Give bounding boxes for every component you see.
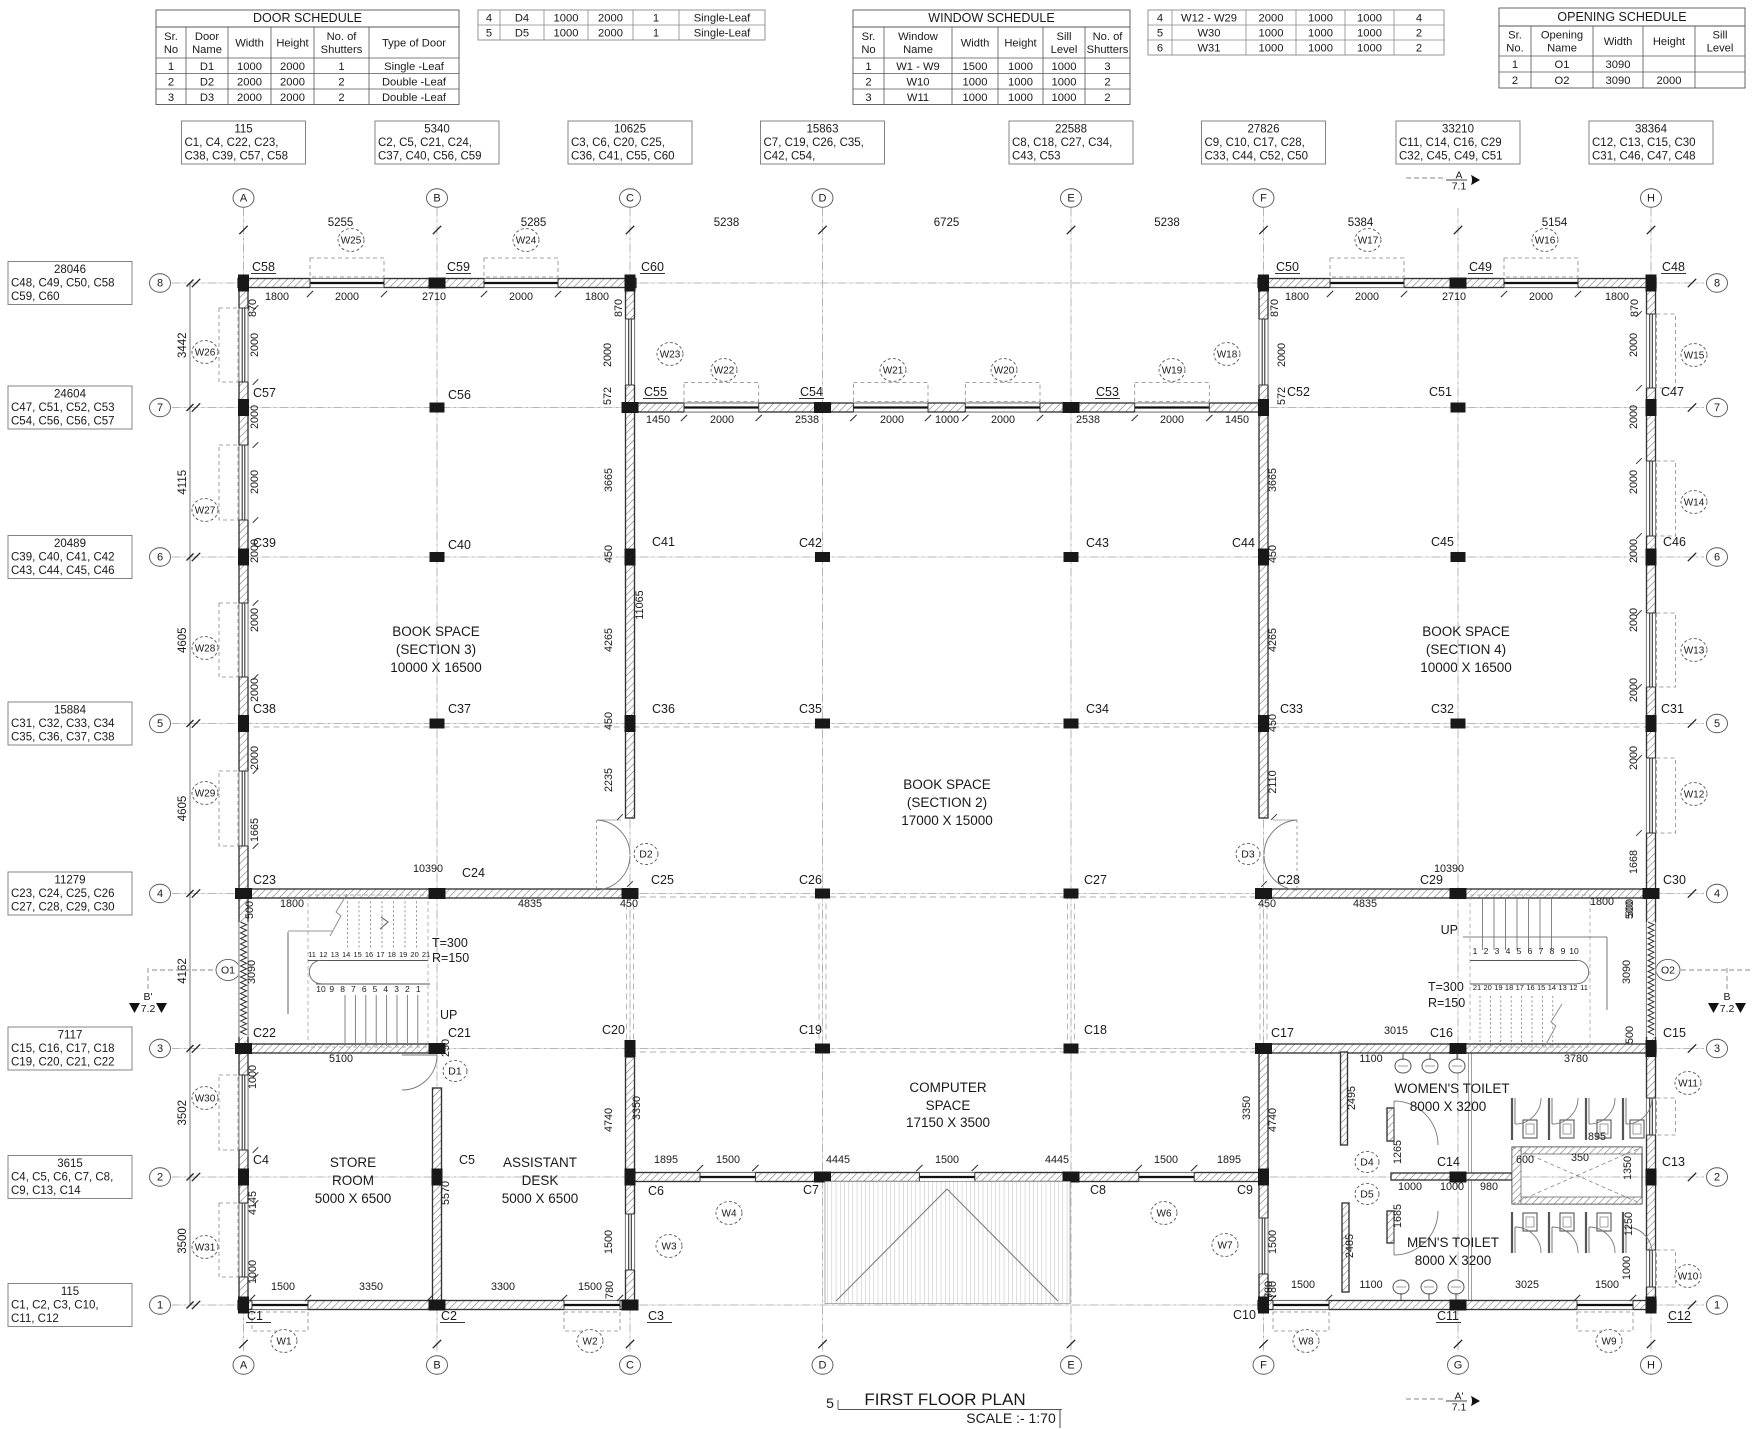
svg-text:C54, C56, C56, C57: C54, C56, C56, C57 — [11, 416, 115, 428]
grid column label box H — [1589, 121, 1713, 164]
svg-text:2235: 2235 — [603, 768, 615, 792]
row1 dim ticks — [249, 1295, 1636, 1301]
svg-text:3442: 3442 — [177, 332, 189, 358]
column C37 — [430, 719, 445, 729]
svg-text:11: 11 — [308, 950, 316, 959]
svg-text:2538: 2538 — [1076, 414, 1100, 426]
grid tick F bottom — [1259, 1340, 1267, 1348]
svg-text:C36, C41, C55, C60: C36, C41, C55, C60 — [571, 151, 675, 163]
svg-text:D1: D1 — [448, 1066, 462, 1078]
grid tick D top — [818, 226, 826, 234]
column C6 — [625, 1169, 636, 1186]
svg-text:Name: Name — [192, 44, 222, 56]
svg-text:6: 6 — [1157, 43, 1163, 55]
svg-text:C43, C44, C45, C46: C43, C44, C45, C46 — [11, 565, 115, 577]
svg-text:MEN'S TOILET: MEN'S TOILET — [1407, 1235, 1499, 1250]
svg-text:C31, C32, C33, C34: C31, C32, C33, C34 — [11, 718, 115, 730]
column C7 — [814, 1172, 831, 1183]
svg-text:W1: W1 — [277, 1336, 292, 1347]
window W29 — [192, 771, 238, 846]
svg-text:2000: 2000 — [1529, 291, 1553, 303]
column C27 — [1064, 889, 1079, 899]
wall row3 A-B — [238, 1044, 444, 1053]
svg-text:8: 8 — [157, 278, 163, 290]
svg-text:450: 450 — [603, 712, 615, 730]
svg-text:4835: 4835 — [1353, 898, 1377, 910]
svg-text:2000: 2000 — [1628, 746, 1640, 770]
window W6 — [1151, 1202, 1177, 1225]
column C59 — [429, 278, 446, 289]
svg-text:20: 20 — [1484, 983, 1492, 992]
svg-text:1000: 1000 — [1008, 92, 1033, 104]
window W30 — [192, 1075, 238, 1150]
svg-text:C29: C29 — [1420, 873, 1443, 887]
svg-text:W30: W30 — [1197, 28, 1220, 40]
window schedule extension rows 4-6 — [1148, 10, 1444, 55]
grid line D — [822, 208, 824, 1352]
window W26 — [192, 308, 238, 382]
svg-text:2: 2 — [1714, 1172, 1720, 1184]
svg-text:1: 1 — [157, 1300, 163, 1312]
window W9 — [1577, 1312, 1633, 1352]
svg-text:2000: 2000 — [335, 291, 359, 303]
svg-text:600: 600 — [1516, 1154, 1534, 1166]
door D3 bubble — [1236, 843, 1260, 864]
svg-text:UP: UP — [1441, 923, 1458, 937]
svg-text:5: 5 — [1517, 946, 1522, 956]
svg-text:16: 16 — [1526, 983, 1534, 992]
svg-text:C27, C28, C29, C30: C27, C28, C29, C30 — [11, 902, 115, 914]
svg-text:C41: C41 — [652, 535, 675, 549]
svg-text:5100: 5100 — [329, 1053, 353, 1065]
svg-text:7: 7 — [157, 402, 163, 414]
svg-text:870: 870 — [1269, 299, 1281, 317]
column C18 — [1064, 1044, 1079, 1054]
svg-text:2000: 2000 — [1259, 13, 1284, 25]
column C57 — [238, 399, 249, 416]
svg-text:DESK: DESK — [522, 1173, 559, 1188]
grid tick H top — [1647, 226, 1655, 234]
svg-text:C45: C45 — [1431, 535, 1454, 549]
grid bubble 6 left — [150, 548, 171, 566]
grid line A — [243, 208, 245, 1352]
svg-text:C50: C50 — [1276, 260, 1299, 274]
svg-text:19: 19 — [399, 950, 407, 959]
svg-text:Single-Leaf: Single-Leaf — [694, 13, 751, 25]
svg-text:7.1: 7.1 — [1452, 181, 1467, 193]
svg-text:115: 115 — [234, 124, 252, 136]
svg-text:6: 6 — [1714, 552, 1720, 564]
svg-text:A: A — [240, 1360, 248, 1372]
svg-text:C20: C20 — [602, 1023, 625, 1037]
column C45 — [1451, 552, 1466, 562]
grid bubble F top — [1253, 189, 1274, 207]
column C21 — [429, 1043, 446, 1054]
svg-text:C19, C20, C21, C22: C19, C20, C21, C22 — [11, 1057, 115, 1069]
svg-text:1800: 1800 — [585, 291, 609, 303]
svg-text:2: 2 — [338, 92, 344, 104]
svg-text:3: 3 — [157, 1043, 163, 1055]
svg-text:D5: D5 — [1360, 1189, 1374, 1201]
entrance steps — [825, 1182, 1070, 1304]
svg-text:1: 1 — [416, 984, 421, 994]
svg-text:W10: W10 — [906, 76, 929, 88]
svg-text:W11: W11 — [1678, 1078, 1698, 1089]
grid row label box 4 — [8, 872, 132, 915]
svg-text:5000 X 6500: 5000 X 6500 — [502, 1191, 579, 1206]
women's toilet wash basins — [1395, 1053, 1465, 1073]
svg-text:38364: 38364 — [1635, 124, 1668, 136]
svg-text:895: 895 — [1588, 1131, 1606, 1143]
svg-text:SCALE :- 1:70: SCALE :- 1:70 — [966, 1410, 1056, 1426]
svg-text:C9, C13, C14: C9, C13, C14 — [11, 1185, 81, 1197]
svg-text:COMPUTER: COMPUTER — [909, 1080, 987, 1095]
svg-text:1000: 1000 — [1308, 13, 1333, 25]
svg-text:5: 5 — [1157, 28, 1163, 40]
women's toilet WCs — [1523, 1120, 1644, 1138]
svg-text:W26: W26 — [195, 347, 216, 358]
column C28 — [1255, 888, 1272, 899]
svg-text:1000: 1000 — [1621, 1256, 1633, 1280]
svg-text:11065: 11065 — [634, 590, 646, 619]
svg-text:F: F — [1260, 1360, 1267, 1372]
svg-text:Height: Height — [1653, 36, 1686, 48]
svg-text:C60: C60 — [641, 260, 664, 274]
svg-text:3615: 3615 — [57, 1158, 83, 1170]
window schedule table — [853, 10, 1130, 105]
grid tick 3 right — [1688, 1044, 1696, 1052]
column C33 — [1258, 715, 1269, 732]
grid bubble H top — [1641, 189, 1662, 207]
grid row label box 2 — [8, 1156, 132, 1199]
grid bubble 4 left — [150, 884, 171, 902]
svg-text:3090: 3090 — [1606, 59, 1631, 71]
svg-text:16: 16 — [365, 950, 373, 959]
svg-text:15: 15 — [1537, 983, 1545, 992]
window W7 — [1212, 1234, 1238, 1257]
grid tick C top — [626, 226, 634, 234]
svg-text:C14: C14 — [1437, 1155, 1460, 1169]
svg-text:3025: 3025 — [1515, 1279, 1539, 1291]
svg-text:Width: Width — [235, 38, 264, 50]
svg-text:C37: C37 — [448, 702, 471, 716]
svg-text:C4: C4 — [253, 1153, 269, 1167]
section marker B-7.2 left — [129, 968, 167, 1015]
door D1 bubble — [443, 1060, 467, 1081]
svg-text:C18: C18 — [1084, 1023, 1107, 1037]
svg-text:C42, C54,: C42, C54, — [764, 151, 816, 163]
svg-text:1800: 1800 — [280, 898, 304, 910]
svg-text:C56: C56 — [448, 388, 471, 402]
svg-text:W31: W31 — [195, 1242, 216, 1253]
svg-text:3090: 3090 — [246, 960, 258, 984]
wall womens toilet west — [1341, 1052, 1348, 1145]
svg-text:BOOK SPACE: BOOK SPACE — [903, 777, 991, 792]
svg-text:C36: C36 — [652, 702, 675, 716]
opening schedule table — [1499, 8, 1745, 88]
svg-text:10625: 10625 — [614, 124, 646, 136]
svg-text:4: 4 — [1416, 13, 1422, 25]
shaft — [1512, 1147, 1642, 1204]
grid bubble 6 right — [1707, 548, 1728, 566]
svg-text:D2: D2 — [200, 76, 214, 88]
svg-text:24604: 24604 — [54, 389, 87, 401]
svg-text:2: 2 — [1416, 28, 1422, 40]
svg-text:17: 17 — [1516, 983, 1524, 992]
svg-text:7117: 7117 — [58, 1030, 83, 1042]
svg-text:W3: W3 — [662, 1241, 677, 1252]
row2 dim ticks — [697, 1165, 1198, 1171]
column C46 — [1646, 549, 1657, 566]
svg-text:W1 - W9: W1 - W9 — [896, 61, 940, 73]
grid tick D bottom — [818, 1340, 826, 1348]
svg-text:Sr.: Sr. — [862, 31, 876, 43]
svg-text:C7: C7 — [803, 1183, 819, 1197]
grid tick 4 left — [192, 889, 200, 897]
svg-text:1: 1 — [653, 13, 659, 25]
column C52 — [1258, 399, 1269, 416]
svg-text:4: 4 — [157, 888, 163, 900]
women's toilet stall partitions — [1512, 1098, 1623, 1140]
svg-text:1000: 1000 — [554, 28, 579, 40]
svg-text:1000: 1000 — [554, 13, 579, 25]
column C17 — [1255, 1043, 1272, 1054]
svg-text:2: 2 — [1512, 75, 1518, 87]
svg-text:1000: 1000 — [963, 92, 988, 104]
svg-text:No.: No. — [1506, 42, 1523, 54]
svg-text:1800: 1800 — [1605, 291, 1629, 303]
svg-text:W29: W29 — [195, 788, 216, 799]
svg-text:1: 1 — [1473, 946, 1478, 956]
svg-text:17: 17 — [376, 950, 384, 959]
grid bubble 7 left — [150, 398, 171, 416]
svg-text:10: 10 — [316, 984, 326, 994]
svg-text:1500: 1500 — [603, 1230, 615, 1254]
svg-text:2000: 2000 — [1160, 414, 1184, 426]
column C15 — [1646, 1040, 1657, 1057]
svg-text:1895: 1895 — [1217, 1154, 1241, 1166]
title — [826, 1390, 1062, 1428]
grid line 1 — [172, 1304, 1704, 1306]
svg-text:2000: 2000 — [249, 746, 261, 770]
svg-text:C23: C23 — [253, 873, 276, 887]
svg-text:T=300: T=300 — [1428, 980, 1464, 994]
svg-text:7: 7 — [1539, 946, 1544, 956]
svg-text:C13: C13 — [1662, 1155, 1685, 1169]
svg-text:3350: 3350 — [631, 1096, 643, 1120]
svg-text:C: C — [626, 193, 634, 205]
column C3 — [622, 1300, 639, 1311]
svg-text:2000: 2000 — [237, 76, 262, 88]
svg-text:4835: 4835 — [518, 898, 542, 910]
svg-text:1500: 1500 — [271, 1281, 295, 1293]
svg-text:2000: 2000 — [1657, 75, 1682, 87]
svg-text:Sr.: Sr. — [164, 31, 178, 43]
svg-text:W10: W10 — [1678, 1271, 1699, 1282]
svg-text:2: 2 — [1104, 76, 1110, 88]
opening O1 bubble — [152, 959, 240, 980]
grid bubble F bottom — [1253, 1356, 1274, 1374]
door D4 — [1394, 1101, 1438, 1145]
svg-text:5: 5 — [157, 718, 163, 730]
svg-text:7.2: 7.2 — [141, 1003, 156, 1015]
svg-text:UP: UP — [440, 1008, 457, 1022]
svg-text:Width: Width — [1604, 36, 1633, 48]
svg-text:3015: 3015 — [1384, 1025, 1408, 1037]
column C11 — [1450, 1300, 1467, 1311]
svg-text:2: 2 — [1104, 92, 1110, 104]
wall row1 A-C — [238, 1300, 637, 1311]
grid bubble C top — [620, 189, 641, 207]
wall row8 A-C — [238, 278, 636, 289]
svg-text:BOOK SPACE: BOOK SPACE — [1422, 624, 1510, 639]
window W25 — [310, 229, 384, 277]
svg-text:C16: C16 — [1430, 1026, 1453, 1040]
svg-text:C: C — [626, 1360, 634, 1372]
svg-text:C58: C58 — [252, 260, 275, 274]
svg-text:Sr.: Sr. — [1508, 30, 1522, 42]
svg-text:11279: 11279 — [54, 875, 85, 887]
svg-text:C59: C59 — [447, 260, 470, 274]
svg-text:C35: C35 — [799, 702, 822, 716]
svg-text:6725: 6725 — [934, 217, 960, 229]
beam line row4 mid — [630, 896, 1264, 898]
column C54 — [814, 402, 831, 413]
svg-text:5340: 5340 — [424, 124, 450, 136]
grid column label box F — [1202, 121, 1326, 164]
svg-text:18: 18 — [388, 950, 396, 959]
svg-text:C38: C38 — [253, 702, 276, 716]
svg-text:4265: 4265 — [1267, 628, 1279, 652]
svg-text:1000: 1000 — [247, 1260, 259, 1284]
grid bubble E top — [1061, 189, 1082, 207]
svg-text:5000 X 6500: 5000 X 6500 — [315, 1191, 392, 1206]
svg-text:4605: 4605 — [177, 796, 189, 822]
svg-text:4: 4 — [1714, 888, 1720, 900]
opening O2 bubble — [1656, 959, 1750, 980]
window W2 — [564, 1312, 620, 1352]
section marker A-7.1 top — [1406, 168, 1480, 193]
grid tick F top — [1259, 226, 1267, 234]
svg-text:C12, C13, C15, C30: C12, C13, C15, C30 — [1592, 137, 1696, 149]
svg-text:C3, C6, C20, C25,: C3, C6, C20, C25, — [571, 137, 665, 149]
svg-text:C32, C45, C49, C51: C32, C45, C49, C51 — [1399, 151, 1503, 163]
svg-text:2000: 2000 — [1628, 405, 1640, 429]
svg-text:3: 3 — [1495, 946, 1500, 956]
svg-text:17000 X 15000: 17000 X 15000 — [901, 813, 993, 828]
column C41 — [625, 549, 636, 566]
svg-text:C42: C42 — [799, 536, 822, 550]
grid row label box 5 — [8, 702, 132, 745]
svg-text:8: 8 — [340, 984, 345, 994]
svg-text:C6: C6 — [648, 1184, 664, 1198]
svg-text:1500: 1500 — [1267, 1230, 1279, 1254]
wall row2 C-F — [630, 1172, 1264, 1183]
grid bubble E bottom — [1061, 1356, 1082, 1374]
svg-text:Sill: Sill — [1713, 30, 1728, 42]
section marker B-7.2 right — [1708, 968, 1746, 1015]
svg-text:12: 12 — [319, 950, 327, 959]
svg-text:230: 230 — [440, 1039, 452, 1057]
grid bubble A top — [233, 189, 254, 207]
window W24 — [484, 229, 558, 277]
door D5 bubble — [1355, 1183, 1379, 1204]
svg-text:22588: 22588 — [1055, 124, 1087, 136]
svg-text:12: 12 — [1569, 983, 1577, 992]
column labels — [246, 260, 1692, 1323]
svg-text:FIRST FLOOR PLAN: FIRST FLOOR PLAN — [864, 1390, 1025, 1409]
window W10 — [1657, 1250, 1702, 1287]
door schedule table — [156, 10, 459, 105]
svg-text:C55: C55 — [644, 385, 667, 399]
grid tick 5 right — [1688, 719, 1696, 727]
wall column C mid — [626, 412, 635, 818]
grid bubble 3 left — [150, 1039, 171, 1057]
svg-text:W20: W20 — [994, 365, 1015, 376]
svg-text:10000 X 16500: 10000 X 16500 — [390, 660, 482, 675]
svg-text:5384: 5384 — [1348, 217, 1374, 229]
svg-text:DOOR SCHEDULE: DOOR SCHEDULE — [253, 11, 362, 25]
beam line row5 — [244, 726, 1652, 728]
svg-text:870: 870 — [613, 299, 625, 317]
svg-text:1000: 1000 — [1308, 28, 1333, 40]
door D2 — [597, 814, 633, 890]
svg-text:2538: 2538 — [795, 414, 819, 426]
opening O2 — [1646, 922, 1657, 1037]
svg-text:2000: 2000 — [598, 13, 623, 25]
wall column F lower — [1258, 1052, 1269, 1310]
svg-text:R=150: R=150 — [1428, 996, 1465, 1010]
svg-text:C27: C27 — [1084, 873, 1107, 887]
svg-text:(SECTION 2): (SECTION 2) — [907, 795, 987, 810]
svg-text:980: 980 — [1480, 1181, 1498, 1193]
svg-text:2: 2 — [405, 984, 410, 994]
grid tick 7 right — [1688, 403, 1696, 411]
grid bubble 2 left — [150, 1168, 171, 1186]
svg-text:C34: C34 — [1086, 702, 1109, 716]
grid row label box 8 — [8, 262, 132, 305]
svg-text:C15: C15 — [1663, 1026, 1686, 1040]
svg-text:W23: W23 — [660, 349, 681, 360]
svg-text:5570: 5570 — [440, 1181, 452, 1205]
svg-text:F: F — [1260, 193, 1267, 205]
svg-text:2: 2 — [865, 76, 871, 88]
svg-text:20: 20 — [410, 950, 418, 959]
svg-text:W13: W13 — [1684, 645, 1705, 656]
column C39 — [238, 549, 249, 566]
window W11 — [1657, 1072, 1702, 1135]
column C50 — [1258, 275, 1269, 292]
svg-text:C7, C19, C26, C35,: C7, C19, C26, C35, — [764, 137, 864, 149]
window W13 — [1657, 613, 1708, 687]
men's toilet stall partitions — [1512, 1212, 1623, 1253]
window W8 — [1273, 1312, 1329, 1352]
window W18 — [1214, 343, 1240, 366]
svg-text:Shutters: Shutters — [321, 44, 363, 56]
svg-text:6: 6 — [157, 552, 163, 564]
column C43 — [1064, 552, 1079, 562]
svg-text:5: 5 — [486, 28, 492, 40]
grid line G — [1457, 208, 1459, 1352]
grid line F — [1263, 208, 1265, 1352]
svg-text:C26: C26 — [799, 873, 822, 887]
svg-text:Single -Leaf: Single -Leaf — [384, 61, 445, 73]
svg-text:C53: C53 — [1096, 385, 1119, 399]
svg-text:C25: C25 — [651, 873, 674, 887]
svg-text:C1: C1 — [247, 1309, 263, 1323]
window W3 — [656, 1235, 682, 1258]
svg-text:W9: W9 — [1602, 1336, 1617, 1347]
